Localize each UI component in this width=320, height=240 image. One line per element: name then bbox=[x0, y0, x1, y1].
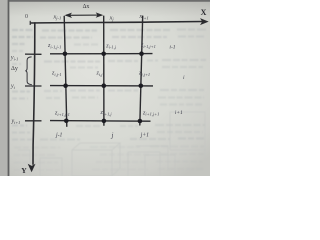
svg-text:yi+1: yi+1 bbox=[11, 119, 21, 125]
y-axis tick yi-1 bbox=[25, 53, 42, 55]
node z i,j+1 bbox=[139, 84, 144, 89]
svg-text:Δx: Δx bbox=[83, 4, 90, 10]
mesh horizontal line i bbox=[50, 85, 153, 87]
svg-text:X: X bbox=[201, 8, 207, 17]
page border line bbox=[8, 0, 10, 176]
mesh horizontal line i-1 bbox=[50, 53, 153, 55]
mesh vertical line j bbox=[103, 16, 105, 126]
svg-text:i-1: i-1 bbox=[169, 45, 175, 51]
svg-text:j: j bbox=[111, 133, 114, 140]
y-axis tick yi bbox=[25, 85, 42, 87]
mesh vertical line j+1 bbox=[140, 16, 143, 126]
svg-text:0: 0 bbox=[25, 14, 28, 20]
svg-text:j-1: j-1 bbox=[55, 132, 63, 138]
node z i+1,j bbox=[102, 119, 107, 124]
bleed-through wireframe shapes bottom bbox=[18, 112, 205, 176]
y-axis bbox=[33, 22, 35, 165]
svg-text:Y: Y bbox=[21, 166, 27, 175]
x-axis left tick bbox=[29, 21, 31, 25]
y-axis tick yi+1 bbox=[25, 120, 42, 122]
node z i-1,j+1 bbox=[139, 51, 144, 56]
node z i-1,j bbox=[101, 52, 106, 57]
svg-text:i+1: i+1 bbox=[175, 110, 183, 116]
node z i,j-1 bbox=[63, 83, 68, 88]
node z i+1,j-1 bbox=[64, 119, 69, 124]
top edge dark band bbox=[9, 0, 210, 2]
paper background bbox=[0, 0, 210, 176]
node z i,j bbox=[102, 83, 107, 88]
left outer margin bbox=[0, 0, 8, 176]
svg-text:j+1: j+1 bbox=[140, 133, 150, 139]
delta-x dimension arrow bbox=[64, 12, 103, 18]
bleed-through text smudges bbox=[12, 30, 206, 171]
delta-y brace bbox=[25, 57, 31, 85]
top shading under band bbox=[9, 2, 210, 17]
x-axis arrowhead bbox=[200, 18, 209, 25]
svg-text:yi: yi bbox=[10, 84, 16, 90]
mesh vertical line j-1 bbox=[64, 16, 67, 127]
node z i-1,j-1 bbox=[63, 52, 68, 57]
x-axis bbox=[30, 22, 204, 24]
node z i+1,j+1 bbox=[138, 119, 143, 124]
y-axis arrowhead bbox=[28, 164, 36, 173]
svg-text:Δy: Δy bbox=[11, 66, 18, 72]
mesh horizontal line i+1 bbox=[50, 120, 151, 123]
svg-text:yi-1: yi-1 bbox=[10, 55, 18, 61]
